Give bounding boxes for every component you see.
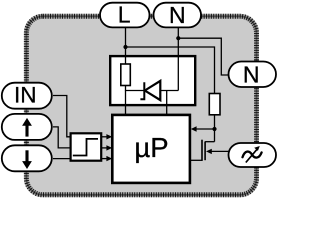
wire UP to schmitt bbox=[53, 127, 71, 148]
AC variable symbol bbox=[243, 152, 262, 158]
wire IN to schmitt bbox=[53, 96, 71, 137]
wire L down bbox=[125, 27, 127, 56]
wire N-node to right N oval bbox=[178, 38, 228, 75]
terminal oval L bbox=[100, 3, 150, 28]
enclosure hatched border bbox=[26, 16, 256, 195]
terminal oval UP bbox=[2, 114, 52, 140]
schmitt output arrow 1 bbox=[101, 136, 107, 138]
microprocessor box U1 bbox=[112, 115, 190, 183]
svg-text:N: N bbox=[169, 2, 186, 28]
svg-text:L: L bbox=[118, 2, 131, 28]
wire supply output left to uP bbox=[125, 91, 127, 115]
down arrow bbox=[25, 150, 28, 162]
hysteresis symbol bbox=[73, 139, 98, 156]
wire L-node to right resistor bbox=[126, 47, 215, 94]
schmitt trigger box bbox=[71, 133, 102, 160]
terminal oval AC out bbox=[229, 143, 277, 167]
up arrow bbox=[25, 125, 28, 137]
svg-text:µP: µP bbox=[134, 132, 168, 163]
wire gate from uP bbox=[190, 159, 202, 161]
terminal oval DOWN bbox=[2, 145, 52, 171]
wire resistor bottom bbox=[126, 86, 145, 91]
enclosure interior bbox=[26, 16, 256, 195]
node L junction bbox=[123, 45, 127, 49]
schmitt output arrow 3 bbox=[101, 158, 107, 160]
terminal oval N top bbox=[154, 3, 202, 28]
terminal oval IN bbox=[2, 83, 52, 109]
wire drain bbox=[205, 141, 214, 143]
wire sense arrow into uP bbox=[196, 128, 215, 130]
wire N branch inside box bbox=[177, 56, 179, 91]
power supply box bbox=[110, 56, 195, 105]
wire DOWN to schmitt bbox=[53, 158, 71, 160]
schmitt output arrow 2 bbox=[101, 147, 107, 149]
zener diode D1 bbox=[140, 82, 144, 99]
wire supply output right to uP bbox=[166, 91, 168, 115]
resistor R2 (sense, right) bbox=[209, 94, 220, 115]
transistor Q1 channel line bbox=[204, 142, 206, 161]
terminal oval N right bbox=[229, 62, 277, 88]
node N junction bbox=[176, 36, 180, 40]
wire left branch in power box bbox=[125, 56, 127, 64]
node sense junction bbox=[212, 127, 216, 131]
wire diode to N branch bbox=[160, 90, 178, 92]
wire source from AC oval with arrow bbox=[211, 150, 229, 152]
wire N down bbox=[177, 27, 179, 57]
wire resistor R2 to node bbox=[214, 115, 216, 142]
svg-text:IN: IN bbox=[14, 83, 37, 108]
transistor Q1 gate line bbox=[201, 140, 203, 161]
svg-text:N: N bbox=[243, 61, 260, 87]
resistor R1 (in power box) bbox=[121, 64, 131, 86]
